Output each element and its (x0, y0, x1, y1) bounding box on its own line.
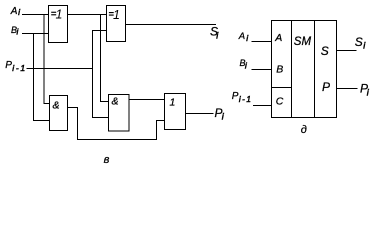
svg-text:A: A (274, 32, 282, 44)
svg-text:P: P (5, 60, 12, 71)
wire C input (block) (253, 105, 272, 107)
output label P_i (left circuit) (215, 106, 225, 122)
wire P_i-1 input (27, 68, 93, 70)
svg-text:B: B (276, 63, 283, 75)
wire P output (block) (337, 88, 358, 90)
divider between pin column and SM field (291, 21, 293, 118)
wire B input (block) (252, 69, 272, 71)
input label P_i-1 (left circuit) (5, 60, 27, 73)
input label B_i (block) (240, 58, 248, 70)
wire A_i input (22, 14, 49, 16)
svg-text:&: & (112, 96, 119, 108)
svg-text:P: P (232, 91, 239, 102)
wire P branch up to XOR2 (93, 31, 107, 69)
output label P_i (block) (360, 81, 370, 97)
svg-text:1: 1 (56, 8, 63, 22)
OR gate (1) (165, 94, 186, 130)
svg-text:i: i (216, 30, 219, 40)
input label A_i (block) (238, 31, 250, 43)
svg-text:A: A (10, 6, 18, 17)
svg-text:д: д (301, 124, 307, 136)
wire XOR1-out branch down to AND2 (101, 15, 109, 102)
svg-text:S: S (321, 44, 329, 58)
svg-text:i: i (17, 28, 19, 37)
wire P branch down to AND2 (93, 69, 109, 118)
wire AND1 output routed below to OR (68, 108, 165, 140)
XOR gate 1 (=1) (49, 6, 68, 43)
wire B branch down to AND1 (34, 34, 50, 121)
wire P_i output of OR (186, 113, 214, 115)
svg-text:C: C (276, 96, 284, 108)
wire A branch down to AND1 (44, 15, 50, 104)
wire XOR1 output to XOR2 (68, 14, 107, 16)
svg-text:i-1: i-1 (12, 63, 27, 73)
XOR gate 2 (=1) (107, 6, 126, 42)
input label A_i (left circuit) (10, 6, 21, 17)
input label B_i (left circuit) (11, 25, 19, 37)
svg-text:i: i (246, 33, 249, 43)
svg-text:i: i (245, 61, 248, 71)
svg-text:i-1: i-1 (239, 95, 252, 104)
wire A input (block) (252, 41, 272, 43)
svg-text:в: в (104, 154, 110, 166)
svg-text:1: 1 (170, 96, 176, 108)
AND gate 1 (&) (50, 96, 68, 131)
svg-text:i: i (18, 7, 21, 17)
wire AND2 output to OR (129, 99, 165, 101)
wire B_i input (22, 33, 49, 35)
svg-text:i: i (222, 112, 225, 122)
input label P_i-1 (block) (232, 91, 252, 104)
svg-text:A: A (238, 31, 245, 42)
svg-text:1: 1 (113, 8, 120, 22)
svg-text:i: i (367, 87, 370, 97)
svg-text:SM: SM (294, 36, 312, 48)
svg-text:S: S (355, 35, 363, 49)
output label S_i (left circuit) (210, 25, 219, 41)
divider between SM field and output column (314, 21, 316, 118)
svg-text:i: i (363, 41, 366, 51)
AND gate 2 (&) (109, 95, 130, 132)
output label S_i (block) (355, 35, 367, 51)
svg-text:P: P (322, 80, 330, 94)
summator block SM outer rectangle (272, 21, 337, 118)
wire S output (block) (337, 50, 357, 52)
svg-text:&: & (53, 100, 60, 112)
divider above C pin field (272, 87, 292, 89)
wire S_i output of XOR2 (126, 24, 217, 26)
